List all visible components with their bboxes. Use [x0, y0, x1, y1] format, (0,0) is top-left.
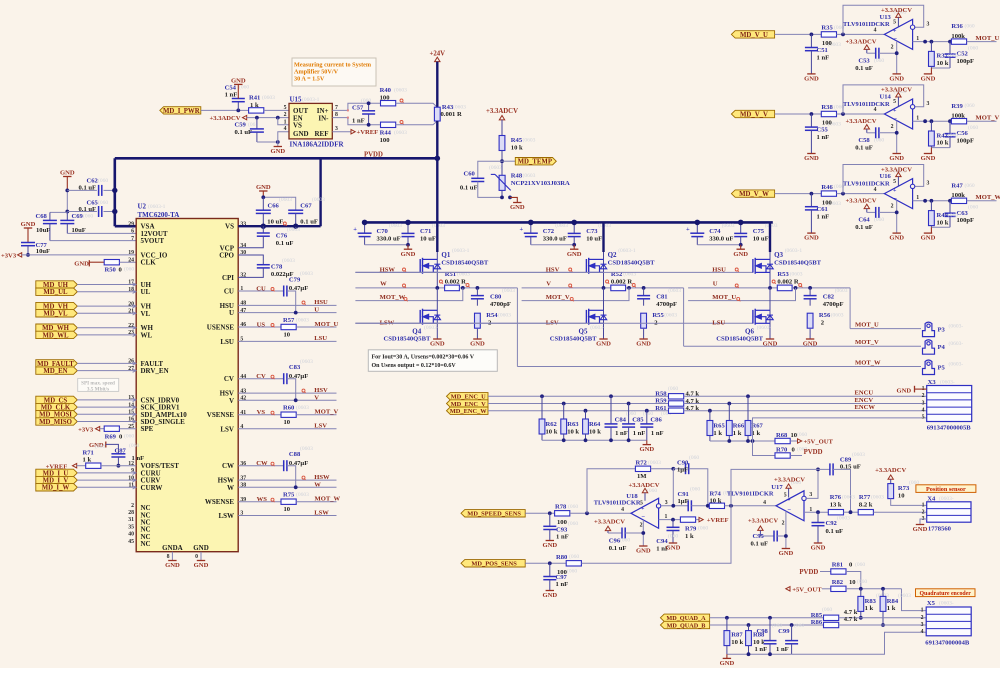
svg-text:TLV9101IDCKR: TLV9101IDCKR: [727, 490, 774, 497]
capacitor C82 4700pF: [809, 288, 811, 296]
svg-text:1 nF: 1 nF: [776, 646, 789, 653]
svg-text:LSU: LSU: [314, 335, 327, 342]
svg-text:(060: (060: [822, 606, 832, 613]
ground under low-side fet: [599, 338, 607, 340]
svg-text:1 k: 1 k: [83, 456, 92, 463]
wire bottom rail to ground: [931, 67, 950, 69]
svg-text:R77: R77: [859, 494, 871, 501]
svg-text:(0603-: (0603-: [424, 324, 439, 331]
wire C69 to 12VOUT: [67, 232, 136, 234]
svg-text:MOT_U: MOT_U: [712, 294, 736, 301]
svg-text:1 nF: 1 nF: [556, 534, 569, 541]
wire QUAD_B row: [710, 624, 824, 626]
svg-text:CV: CV: [256, 373, 266, 380]
svg-text:35: 35: [128, 524, 134, 530]
pull-up resistor R65 1 k: [708, 409, 712, 413]
svg-text:VS: VS: [293, 122, 302, 130]
wire X3 pin5 to rail: [753, 418, 927, 456]
svg-text:R80: R80: [556, 554, 568, 561]
port MD_POS_SENS: [461, 560, 525, 567]
ground under input cap: [807, 153, 815, 155]
svg-text:(0603-: (0603-: [590, 324, 605, 331]
resistor R51 0.002 R shunt: [445, 285, 460, 291]
svg-text:GND: GND: [636, 341, 651, 348]
svg-text:330.0 uF: 330.0 uF: [709, 236, 733, 243]
svg-text:P3: P3: [938, 327, 946, 334]
svg-text:+: +: [893, 188, 897, 194]
capacitor C87 1 nF: [111, 453, 125, 455]
wire C68 to 5VOUT: [50, 240, 136, 242]
port MD_CLK: [36, 403, 78, 410]
wire +24V to R43 (PVDD feed): [436, 62, 438, 108]
svg-text:30 A = 1.5V: 30 A = 1.5V: [294, 76, 325, 83]
wire port to R78: [525, 512, 554, 514]
wire ENCV to X3 pin3: [684, 403, 927, 405]
svg-text:CSD18540Q5BT: CSD18540Q5BT: [716, 335, 763, 342]
svg-text:+5V_OUT: +5V_OUT: [804, 439, 834, 446]
svg-text:GND: GND: [779, 550, 794, 557]
svg-text:VL: VL: [141, 310, 151, 318]
capacitor C85 1 nF: [627, 402, 631, 406]
svg-text:MD_V_U: MD_V_U: [740, 32, 768, 39]
svg-text:(060: (060: [965, 23, 975, 30]
svg-text:(0603: (0603: [871, 493, 884, 500]
svg-text:R42: R42: [937, 132, 949, 139]
svg-text:C91: C91: [678, 491, 689, 498]
svg-text:C56: C56: [957, 130, 969, 137]
svg-text:(060: (060: [124, 433, 134, 440]
op-amp pin2 to ground: [896, 121, 898, 154]
resistor R78 100: [555, 511, 570, 516]
svg-text:R45: R45: [511, 137, 523, 144]
power +5V_OUT to R82: [786, 587, 790, 591]
svg-text:R41: R41: [249, 95, 260, 102]
svg-text:(060: (060: [968, 124, 978, 131]
wire MD_I_PWR to R41: [201, 109, 249, 111]
svg-text:5: 5: [893, 20, 896, 26]
svg-text:1 nF: 1 nF: [225, 91, 238, 98]
svg-text:On Usens output = 0.12*10=0.6V: On Usens output = 0.12*10=0.6V: [372, 363, 457, 369]
wire U15 GND pin down: [278, 132, 289, 147]
svg-text:(0603: (0603: [394, 87, 407, 94]
svg-text:(0603: (0603: [664, 312, 677, 319]
svg-text:29: 29: [128, 221, 134, 227]
svg-text:(0603: (0603: [389, 222, 402, 229]
ground above C77: [27, 228, 29, 243]
svg-text:0.47µF: 0.47µF: [289, 460, 308, 467]
wire port to Rin: [775, 33, 822, 35]
resistor R36 100k output: [951, 39, 966, 44]
svg-text:1 k: 1 k: [685, 533, 694, 540]
transistor Q5 CSD18540Q5BT (low side): [603, 288, 605, 339]
svg-text:(0603: (0603: [835, 287, 848, 294]
svg-text:R47: R47: [951, 182, 963, 189]
svg-text:0.1 uF: 0.1 uF: [609, 545, 627, 552]
wire phase output loop to connector: [849, 288, 851, 329]
svg-text:PVDD: PVDD: [364, 152, 383, 159]
svg-text:U: U: [229, 309, 234, 317]
svg-text:330.0 uF: 330.0 uF: [377, 236, 401, 243]
svg-text:GND: GND: [542, 592, 557, 599]
svg-text:2: 2: [891, 44, 894, 50]
wire bottom rail to ground: [931, 226, 950, 228]
svg-text:LSW: LSW: [314, 509, 329, 516]
op-amp pin2 to ground: [896, 41, 898, 74]
capacitor C59 0.1 uF: [256, 118, 258, 129]
capacitor C98 1 nF on A: [768, 616, 772, 620]
port MD_MOSI: [36, 411, 78, 418]
svg-text:ENCU: ENCU: [855, 390, 874, 397]
capacitor C84 1 nF: [609, 394, 613, 398]
wire R44 to R43 bottom: [396, 121, 438, 125]
svg-text:+: +: [641, 506, 645, 512]
svg-text:C59: C59: [235, 122, 247, 129]
svg-text:+3.3ADCV: +3.3ADCV: [845, 198, 876, 205]
capacitor C99 1 nF on B: [790, 623, 794, 627]
svg-text:C72: C72: [543, 228, 555, 235]
svg-text:CLK: CLK: [141, 259, 157, 267]
svg-text:MOT_W: MOT_W: [315, 496, 341, 503]
label box: Quadrature encoder: [916, 589, 976, 597]
svg-text:10 k: 10 k: [567, 428, 579, 435]
svg-text:2: 2: [891, 124, 894, 130]
svg-text:(0603: (0603: [296, 316, 309, 323]
svg-text:8.2 k: 8.2 k: [859, 502, 873, 509]
port MD_UH: [36, 281, 78, 288]
svg-text:(060: (060: [874, 136, 884, 143]
port MD_ENC_U: [447, 393, 489, 400]
svg-text:R53: R53: [777, 271, 789, 278]
svg-text:2: 2: [921, 615, 924, 621]
resistor R35 100: [821, 32, 836, 37]
svg-text:R35: R35: [821, 25, 833, 32]
svg-text:R65: R65: [713, 423, 725, 430]
svg-text:GND: GND: [666, 545, 681, 552]
svg-text:GND: GND: [639, 446, 654, 453]
svg-text:GND: GND: [270, 148, 285, 155]
svg-text:(0603-1: (0603-1: [302, 96, 320, 103]
port MD_ENC_V: [447, 400, 489, 407]
svg-text:LSV: LSV: [314, 423, 327, 430]
wire HSV row: [238, 392, 336, 394]
svg-text:1: 1: [922, 503, 925, 509]
port MD_QUAD_A: [660, 614, 709, 621]
svg-text:R64: R64: [589, 421, 601, 428]
svg-text:(0603: (0603: [287, 226, 300, 233]
svg-text:(0603: (0603: [648, 459, 661, 466]
svg-text:HSV: HSV: [314, 387, 328, 394]
svg-text:1 nF: 1 nF: [615, 430, 628, 437]
wire sense row / resistor R75 10: [238, 501, 281, 503]
svg-text:2: 2: [640, 523, 643, 529]
transistor Q4 CSD18540Q5BT (low side): [436, 288, 438, 339]
svg-text:1 k: 1 k: [865, 605, 874, 612]
wire port to Rin: [775, 193, 822, 195]
op-amp U17 TLV9101IDCKR (mirrored): [776, 491, 804, 521]
svg-text:R39: R39: [951, 103, 963, 110]
svg-text:(0603-: (0603-: [757, 324, 772, 331]
svg-text:8: 8: [167, 554, 170, 560]
svg-text:10: 10: [849, 579, 856, 586]
thermistor R48 NCP21XV103J03RA: [499, 175, 505, 190]
svg-text:Q5: Q5: [579, 327, 588, 335]
note: SPI max speed: [78, 378, 119, 391]
svg-text:10: 10: [284, 506, 291, 513]
svg-text:330.0 uF: 330.0 uF: [543, 236, 567, 243]
ground under input cap: [807, 232, 815, 234]
capacitor C51 1 nF: [810, 34, 812, 47]
U18 pin2 stub to ground: [642, 520, 644, 546]
svg-text:GND: GND: [913, 526, 928, 533]
wire shunt output node: [792, 287, 850, 289]
svg-text:1 nF: 1 nF: [556, 581, 569, 588]
wire Rin to op-amp apex input: [837, 113, 885, 115]
wire QUAD_A row: [710, 617, 824, 619]
svg-text:U15: U15: [290, 96, 303, 104]
wire cap bottoms: [365, 244, 408, 246]
capacitor C75 10 uF: [740, 222, 742, 233]
svg-text:C82: C82: [823, 293, 835, 300]
svg-text:R72: R72: [636, 460, 648, 467]
node R76/R77: [844, 511, 859, 513]
svg-text:(060: (060: [965, 182, 975, 189]
svg-text:+3.3ADCV: +3.3ADCV: [748, 518, 778, 525]
output wire pin1: [913, 120, 952, 122]
svg-text:(060: (060: [965, 102, 975, 109]
svg-text:HSU: HSU: [712, 266, 726, 273]
svg-text:R56: R56: [819, 312, 831, 319]
svg-text:MD_ENC_W: MD_ENC_W: [450, 408, 488, 415]
ground under bulk caps: [407, 245, 409, 249]
resistor R71 1 k: [86, 463, 101, 468]
svg-text:(060: (060: [95, 443, 105, 450]
svg-text:C60: C60: [464, 170, 476, 177]
svg-text:1: 1: [665, 514, 668, 520]
svg-text:MD_V_W: MD_V_W: [739, 191, 769, 198]
svg-text:100pF: 100pF: [957, 217, 975, 224]
svg-text:U18: U18: [626, 493, 638, 500]
svg-text:(060: (060: [620, 537, 630, 544]
svg-text:100: 100: [380, 137, 391, 144]
ground GNDA: [168, 560, 176, 562]
wire +3V3 to VCC_IO: [22, 254, 137, 256]
svg-text:R81: R81: [832, 562, 843, 569]
svg-text:PVDD: PVDD: [804, 449, 823, 456]
svg-text:1 nF: 1 nF: [651, 430, 664, 437]
svg-text:GND: GND: [542, 542, 557, 549]
svg-text:R58: R58: [655, 390, 667, 397]
svg-text:GND: GND: [256, 184, 271, 191]
capacitor C81 4700pF: [643, 288, 645, 296]
svg-text:+VREF: +VREF: [357, 129, 379, 136]
svg-text:R69: R69: [105, 433, 117, 440]
svg-text:(0603: (0603: [394, 129, 407, 136]
ground under bulk caps: [573, 245, 575, 249]
svg-text:10 k: 10 k: [937, 140, 949, 147]
wire gnd rail to C66 C67: [263, 197, 295, 210]
port MD_I_W: [36, 484, 78, 491]
wire LSU row: [238, 340, 336, 342]
svg-text:100k: 100k: [951, 192, 965, 199]
svg-text:(0603-1: (0603-1: [452, 247, 470, 254]
svg-text:3.5 Mbit/s: 3.5 Mbit/s: [87, 386, 109, 392]
svg-text:Amplifier 50V/V: Amplifier 50V/V: [294, 69, 339, 76]
port MD_VL: [36, 310, 78, 317]
svg-text:GND: GND: [733, 251, 748, 258]
svg-text:(0603: (0603: [555, 222, 568, 229]
ground under snubber: [806, 338, 814, 340]
svg-text:100: 100: [380, 95, 391, 102]
svg-text:W: W: [227, 484, 234, 492]
svg-text:CSD18540Q5BT: CSD18540Q5BT: [550, 335, 597, 342]
op-amp U14 TLV9101IDCKR (mirrored): [884, 99, 912, 129]
op-amp U16 TLV9101IDCKR (mirrored): [884, 179, 912, 209]
U18 pin1 to +VREF via R79: [659, 519, 681, 521]
svg-text:MD_UL: MD_UL: [43, 289, 68, 296]
svg-text:7: 7: [131, 236, 134, 242]
svg-text:6: 6: [131, 229, 134, 235]
svg-text:R46: R46: [821, 184, 833, 191]
transistor Q2 CSD18540Q5BT (high side): [602, 222, 604, 252]
wire ENCU row: [488, 395, 668, 397]
svg-text:R54: R54: [486, 312, 498, 319]
capacitor C93 1 nF: [549, 513, 551, 526]
resistor R72 1M feedback: [635, 466, 650, 471]
ground above C54: [237, 84, 239, 98]
net label V row: [522, 287, 611, 289]
svg-text:C74: C74: [709, 228, 721, 235]
svg-text:C70: C70: [377, 228, 389, 235]
IC U2 TMC6200-TA body: [136, 219, 238, 552]
svg-text:4: 4: [874, 28, 877, 34]
note box: measuring current to system amplifier: [292, 58, 376, 86]
svg-text:0.47µF: 0.47µF: [289, 285, 308, 292]
svg-text:0.002 R: 0.002 R: [445, 279, 466, 286]
svg-text:Measuring current to System: Measuring current to System: [294, 62, 372, 69]
svg-text:GND: GND: [804, 155, 819, 162]
ground under low-side fet: [766, 338, 774, 340]
op-amp U13 TLV9101IDCKR (mirrored): [884, 19, 912, 49]
svg-text:R73: R73: [898, 485, 910, 492]
svg-text:C92: C92: [826, 520, 838, 527]
svg-text:C75: C75: [753, 228, 765, 235]
svg-text:100k: 100k: [951, 33, 965, 40]
svg-text:(060: (060: [968, 204, 978, 211]
svg-text:(0603: (0603: [300, 445, 313, 452]
label box: Position sensor: [916, 485, 976, 493]
svg-text:0.1 uF: 0.1 uF: [276, 240, 294, 247]
svg-text:R57: R57: [283, 317, 295, 324]
capacitor C97 1 nF: [549, 563, 551, 576]
svg-text:NC: NC: [141, 540, 151, 548]
svg-text:+3V3: +3V3: [1, 252, 17, 259]
svg-text:C80: C80: [490, 293, 502, 300]
svg-text:(060: (060: [948, 211, 958, 218]
svg-text:10: 10: [898, 492, 905, 499]
connector X5 691347000004B: [926, 607, 971, 636]
svg-text:10 uF: 10 uF: [753, 236, 769, 243]
net label MOT_U kelvin row: [688, 288, 795, 301]
ground under input cap: [807, 73, 815, 75]
svg-text:+3.3ADCV: +3.3ADCV: [881, 87, 912, 94]
svg-text:(060: (060: [855, 561, 865, 568]
wire +5V to X5 pin1: [902, 589, 927, 611]
svg-text:CW: CW: [222, 462, 234, 470]
svg-text:MOT_V: MOT_V: [976, 115, 1000, 122]
port MD_V_W: [731, 190, 774, 197]
wire U row: [238, 312, 336, 314]
svg-text:TLV9101IDCKR: TLV9101IDCKR: [594, 499, 641, 506]
svg-text:MD_V_V: MD_V_V: [740, 111, 768, 118]
svg-text:C51: C51: [817, 47, 828, 54]
op-amp U18 TLV9101IDCKR (mirrored): [631, 498, 659, 528]
svg-text:19: 19: [128, 250, 134, 256]
svg-text:(0603: (0603: [300, 358, 313, 365]
port MD_QUAD_B: [660, 621, 709, 628]
svg-text:R50: R50: [105, 266, 117, 273]
capacitor C91 1uF coupling: [687, 500, 689, 511]
feedback wire box: [843, 85, 924, 114]
svg-text:5: 5: [893, 99, 896, 105]
resistor R85 4.7 k inline A: [824, 615, 839, 620]
svg-text:(0603: (0603: [312, 196, 325, 203]
svg-text:R63: R63: [567, 421, 579, 428]
svg-text:0.1 uF: 0.1 uF: [826, 528, 844, 535]
svg-text:R59: R59: [655, 398, 667, 405]
svg-text:(060: (060: [857, 578, 867, 585]
resistor R45 10 k: [499, 136, 505, 151]
U17 pin1 output: [804, 511, 828, 513]
resistor R42 10 k to gnd: [930, 121, 932, 131]
wire R77 to X4 pin2: [873, 511, 926, 513]
svg-text:C69: C69: [72, 213, 84, 220]
svg-text:CV: CV: [224, 375, 234, 383]
svg-text:4.7 k: 4.7 k: [844, 616, 858, 623]
svg-text:10 uF: 10 uF: [586, 236, 602, 243]
svg-text:(0603: (0603: [852, 451, 865, 458]
svg-text:MD_EN: MD_EN: [43, 368, 67, 375]
svg-text:691347000005B: 691347000005B: [927, 424, 972, 431]
svg-text:+: +: [893, 108, 897, 114]
svg-text:(0603: (0603: [598, 222, 611, 229]
PVDD bus left riser to U2 VSA: [114, 158, 117, 226]
wire cap bottoms: [531, 244, 574, 246]
resistor R87 10 k pulldown A: [725, 616, 729, 620]
svg-text:4700pF: 4700pF: [490, 301, 511, 308]
svg-text:VS: VS: [225, 223, 234, 231]
svg-text:UL: UL: [141, 288, 151, 296]
svg-text:TLV9101IDCKR: TLV9101IDCKR: [843, 101, 890, 108]
svg-text:(0603: (0603: [790, 271, 803, 278]
svg-text:MD_MISO: MD_MISO: [39, 419, 72, 426]
ground above C66/C67: [262, 191, 264, 197]
svg-text:C98: C98: [756, 628, 768, 635]
svg-text:U13: U13: [880, 14, 892, 21]
wire USENSE row / resistor R57 10: [238, 326, 281, 328]
svg-text:(0603: (0603: [279, 196, 292, 203]
svg-text:CURW: CURW: [141, 484, 163, 492]
svg-text:GND: GND: [470, 341, 485, 348]
svg-text:For Iout=30 A, Ursens=0.002*30: For Iout=30 A, Ursens=0.002*30=0.06 V: [372, 355, 475, 361]
svg-text:(0603: (0603: [432, 222, 445, 229]
svg-text:U16: U16: [880, 173, 892, 180]
svg-text:GND: GND: [889, 76, 904, 83]
svg-text:31: 31: [128, 517, 134, 523]
svg-text:(0603-: (0603-: [949, 323, 964, 330]
svg-text:(0603: (0603: [296, 404, 309, 411]
svg-text:100: 100: [557, 569, 568, 576]
port MD_TEMP: [502, 160, 515, 162]
